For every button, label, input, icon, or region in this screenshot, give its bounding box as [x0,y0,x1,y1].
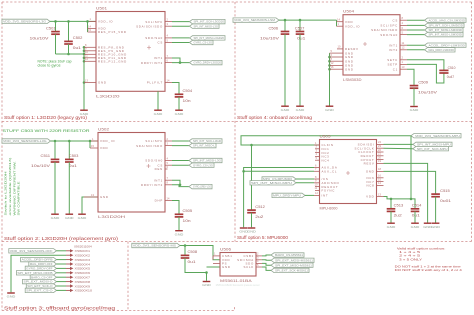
svg-text:0u1: 0u1 [69,164,77,168]
svg-text:U505: U505 [320,134,331,138]
net flag VDD_3V3_SENSORS section5 [411,134,461,138]
svg-text:ACCEL_MAG_CS-LSM303D: ACCEL_MAG_CS-LSM303D [429,18,466,22]
svg-text:09S2011004: 09S2011004 [74,245,92,249]
net flag SPI_EXT_SCK-O [26,284,56,288]
pin stubs U504 right [400,16,407,20]
section divider horizontal y=121.5 [2,121,472,123]
origin cross U505 [346,171,350,175]
svg-text:L3GD20H: L3GD20H [98,215,126,219]
svg-text:Stuff option 3: offboard gyro/: Stuff option 3: offboard gyro/accel/mag [4,305,116,310]
svg-text:C511: C511 [41,154,51,158]
svg-text:SDA/SDI/SDO: SDA/SDI/SDO [136,24,163,28]
origin cross U502 [147,164,151,168]
wire CS to flag [172,42,190,44]
svg-text:10u/10V: 10u/10V [31,164,51,168]
svg-text:0u1: 0u1 [297,36,305,40]
wire 3V3 rail section2 [51,140,98,142]
ground GND C508 [202,282,212,288]
wire XS500 pin 9 [57,285,67,287]
svg-text:GND: GND [202,283,212,287]
wire U504 INT1 to flag [407,44,425,46]
svg-text:GND: GND [100,195,109,199]
wire baro 3V3 rail [180,246,220,260]
capacitor C506 [284,20,286,31]
wire AUX pins to ground [244,168,314,228]
net flag VDD_3V3_SENSORS section4 [233,18,279,22]
svg-text:SPI_EXT_CS-O: SPI_EXT_CS-O [26,289,52,293]
net flag SPI_EXT_CS-O [25,288,56,292]
svg-text:INT1: INT1 [389,43,398,47]
connector XS500 pin 8 [66,280,90,284]
capacitor C511 [54,141,56,159]
svg-text:SDO/SA0: SDO/SA0 [145,36,163,40]
wire SETP to C510 [407,64,444,83]
pin stubs U506 right [256,252,262,256]
svg-text:XS500X8: XS500X8 [75,280,91,284]
wire RES pin bus U501 [83,47,85,109]
net flag ACCEL_DRDY [425,43,467,47]
sheet outer frame left border [1,2,3,311]
svg-text:Stuff option 2: L3GD20H (repla: Stuff option 2: L3GD20H (replacement gyr… [4,236,119,241]
capacitor C515 [431,189,451,203]
svg-text:0u01: 0u01 [440,199,451,203]
svg-text:SCL/SPC: SCL/SPC [145,20,163,24]
svg-text:GND: GND [345,67,354,71]
svg-text:C1: C1 [393,67,398,71]
svg-text:0u1: 0u1 [412,214,420,218]
ground GND C506 [281,106,291,112]
wire RESV to ground [384,163,428,222]
capacitor C514 [411,204,422,218]
svg-text:C505: C505 [183,209,193,213]
svg-text:GND: GND [239,230,249,234]
svg-text:GND: GND [175,112,185,116]
IC U504 LSM303D accel/mag [343,10,400,83]
svg-text:VDD_3V3_SENSORS-OFF: VDD_3V3_SENSORS-OFF [10,249,53,253]
net flag GYRO_CS section2 [189,163,214,167]
net flag GYRO_DRDY section2 [189,184,212,188]
svg-text:PLLFILT: PLLFILT [147,81,163,85]
svg-text:SPI_INT_MISO-L3G: SPI_INT_MISO-L3G [194,24,219,28]
wire U504 SDO to flag [407,34,425,36]
svg-text:ACCEL_DRDY-LSM303D: ACCEL_DRDY-LSM303D [429,43,466,47]
net flag VDD_3V3_SENSORS baro [132,243,180,247]
wire XS500 pin 1 [57,250,67,252]
connector XS500 pin 1 [66,249,90,253]
wire U502 INT1 join [172,180,180,185]
ground GND C512 [247,228,257,234]
svg-text:SPI_INT_MISO-MPU: SPI_INT_MISO-MPU [251,181,292,185]
wire XS500 pin 5 [57,267,67,269]
connector XS500 pin 10 [66,289,92,293]
svg-text:GND: GND [175,232,185,236]
wire MPU SCL to flag [384,147,413,150]
pin stubs U502 right [165,137,172,141]
net flag SDO LSM303D [425,32,464,36]
svg-text:VDD: VDD [100,146,108,150]
wire GND pin to C515 [384,171,436,194]
svg-text:GND: GND [387,225,397,229]
wire U502 SCL to flag [172,140,189,142]
svg-text:SPI_INT_SCK-MPU: SPI_INT_SCK-MPU [417,147,448,151]
svg-text:GND: GND [366,170,375,174]
svg-text:VDD_3V3_SENSORS-L3G: VDD_3V3_SENSORS-L3G [3,20,46,24]
junction dots rail section1 [54,20,57,23]
wire XS500 pin 7 [57,276,67,278]
svg-text:Stuff option 1: L3GD20 (legacy: Stuff option 1: L3GD20 (legacy gyro) [4,115,88,120]
svg-text:DRDY/INT2: DRDY/INT2 [141,183,163,187]
capacitor C513 [390,199,392,209]
ground GND U504 bus [325,106,335,112]
svg-text:GND: GND [247,230,257,234]
svg-text:STUFF C503 WITH 220R RESISTOR: STUFF C503 WITH 220R RESISTOR [3,129,91,133]
svg-text:SPI_INT_MOSI-MPU: SPI_INT_MOSI-MPU [417,143,451,147]
wire MPU INT [305,194,314,196]
wire baro SCLK to flag [262,267,271,270]
svg-text:RES_P12_GND: RES_P12_GND [98,59,127,63]
wire baro SDO to flag [262,263,271,265]
svg-text:Switch to L3GD20H: Switch to L3GD20H [4,172,8,216]
wire SDA to flag [172,25,190,27]
svg-text:AUX_CL: AUX_CL [322,169,338,173]
svg-text:DHP: DHP [155,199,163,203]
wire baro CSB to flag [262,254,271,257]
svg-text:INT: INT [322,194,329,198]
net flag ACCEL_MAG_CS [425,18,467,22]
svg-text:GND: GND [98,81,107,85]
wire DRDY to flag [172,62,190,64]
wire SCL to flag [172,21,190,23]
svg-text:10u/10V: 10u/10V [260,36,280,40]
wire cap ground rail section1 [56,53,85,55]
svg-text:SCLK: SCLK [243,265,254,269]
svg-text:GND: GND [325,108,335,112]
ground GND C504 [175,110,185,116]
svg-text:MS5611-01BA03 barometric press: MS5611-01BA03 barometric pressure sensor [216,283,260,287]
connector XS500 pin 3 [66,258,90,262]
ground GND C513 [387,223,397,229]
capacitor C503 [68,141,70,159]
net flag SPI_INT_SCK section2 [189,139,222,143]
net flag SPI_EXT_MISO-OFFB [16,271,56,275]
svg-text:VDD_3V3_SENSORS-L3G: VDD_3V3_SENSORS-L3G [3,139,47,143]
svg-text:SDO/SA0: SDO/SA0 [145,159,163,163]
svg-text:C501: C501 [46,26,56,30]
net flag GYRO_CS section1 [190,40,214,44]
net flag SPI_INT_SCK MPU [413,147,449,151]
svg-text:SW COMPATIBLE: SW COMPATIBLE [17,182,21,216]
ground GND C507 [296,106,306,112]
svg-text:GND: GND [281,108,291,112]
svg-text:U502: U502 [98,127,109,131]
wire 3V3 vertical to VDD rail [410,136,412,199]
svg-text:MPU_DRDY-MPU: MPU_DRDY-MPU [273,194,301,198]
net flag SDA LSM303D [425,28,464,32]
svg-text:ACCEL_DRDY-OFFB: ACCEL_DRDY-OFFB [22,258,53,262]
svg-text:once available (Q3/2013): once available (Q3/2013) [8,158,12,216]
wire U501 bottom ground [157,91,159,109]
svg-text:XS500X9: XS500X9 [75,284,91,288]
wire U504 INT2 to flag [407,49,425,51]
connector XS500 pin 7 [66,276,90,280]
net flag SPI_INT_SCK section1 [190,19,226,23]
svg-text:XS500X7: XS500X7 [75,276,91,280]
capacitor C507 [299,20,301,31]
capacitor C512 [251,145,253,210]
wire baro SDI to flag [262,259,271,262]
svg-text:SPI_EXT_MOSI-MS5611: SPI_EXT_MOSI-MS5611 [275,258,314,262]
svg-text:CS: CS [157,41,163,45]
svg-text:SCL/SPC: SCL/SPC [380,24,398,28]
svg-text:GND: GND [411,225,421,229]
svg-text:NC4: NC4 [322,158,330,162]
svg-text:VDD_3V3_SENSORS-MPU: VDD_3V3_SENSORS-MPU [415,134,460,138]
wire MPU AD0 [296,182,314,184]
svg-text:SETC: SETC [387,58,398,62]
svg-text:CS: CS [392,18,398,22]
ground GND RESV [423,223,433,229]
wire U502 DHP to C505 [172,201,179,215]
IC U505 MPU-6000 gyro/accel [320,134,377,210]
svg-text:MAG_DRDY-LSM303D: MAG_DRDY-LSM303D [429,48,455,52]
svg-text:DRDY/INT2: DRDY/INT2 [141,61,163,65]
capacitor C502 [68,21,70,41]
svg-text:U506: U506 [220,247,231,251]
section 3 right border [127,242,129,311]
wire U502 DRDY to flag [172,185,189,187]
svg-text:BARO_CS-MS5611: BARO_CS-MS5611 [275,253,304,257]
section 2 and 5 bottom border [2,241,472,243]
wire MPU CS [296,178,314,180]
svg-text:SPI_INT_MOSI-L3G: SPI_INT_MOSI-L3G [193,159,221,163]
svg-text:SDA/SDI/SDO: SDA/SDI/SDO [371,28,398,32]
svg-text:C509: C509 [418,80,428,84]
pin stub U506 VDD [213,252,220,256]
svg-text:INT1: INT1 [154,178,163,182]
ground GND C509 [410,107,420,113]
svg-text:2u2: 2u2 [255,215,263,219]
svg-text:0u1: 0u1 [73,46,81,50]
net flag MAG_DRDY-OFF [29,262,57,266]
svg-text:GND: GND [7,295,17,299]
svg-text:SDA/SDI/SDO: SDA/SDI/SDO [136,144,163,148]
wire XS500 pin 10 [57,289,67,291]
net flag SPI_EXT_MOSI-O [23,279,57,283]
wire U506 GND pin [207,266,221,268]
svg-text:GND: GND [80,112,90,116]
svg-text:SPI_INT_MOSI-L3GD20: SPI_INT_MOSI-L3GD20 [194,36,225,40]
svg-text:XS500X1: XS500X1 [75,249,91,253]
svg-text:0u47: 0u47 [447,75,455,79]
svg-text:GND: GND [51,216,61,220]
svg-text:GYRO_CS-L3G: GYRO_CS-L3G [193,163,213,167]
svg-text:XS500X6: XS500X6 [75,271,91,275]
svg-text:C504: C504 [183,89,193,93]
wire XS500 pin 4 [57,263,67,265]
svg-text:XS500X5: XS500X5 [75,267,91,271]
wire U504 SDA to flag [407,29,425,31]
svg-text:SPI_EXT_SCK-O: SPI_EXT_SCK-O [27,284,52,288]
ground GND XS500 [7,293,17,299]
capacitor C504 [175,89,193,103]
svg-text:SPI_INT_MOSI-LSM303D: SPI_INT_MOSI-LSM303D [429,28,463,32]
svg-text:INT1: INT1 [154,56,163,60]
svg-text:SPI_EXT_MOSI-O: SPI_EXT_MOSI-O [24,280,53,284]
svg-text:XS500X4: XS500X4 [75,262,91,266]
svg-text:C506: C506 [269,26,279,30]
svg-text:GND: GND [222,265,231,269]
svg-text:DO NOT stuff 3 with any of 1,: DO NOT stuff 3 with any of 1, 2 or 4 [395,268,462,272]
net flag SPI_EXT_MISO baro [271,263,313,267]
wire SETC to C510 [407,60,444,71]
ground GND AUX [239,228,249,234]
svg-text:close to gyros: close to gyros [38,64,61,68]
origin cross U504 [363,42,367,46]
svg-text:VDD_IO: VDD_IO [345,24,360,28]
pin stubs U505 left [314,141,320,145]
wire XS500 pin 2 to ground [11,255,66,292]
svg-text:L3GD20: L3GD20 [96,95,120,99]
svg-text:DEN: DEN [155,167,163,171]
svg-text:RESV: RESV [364,162,375,166]
ground GND C511 [51,214,61,220]
svg-text:FSYNC: FSYNC [322,189,336,193]
net flag SPI_EXT_SCK baro [271,268,309,272]
section divider vertical center [234,2,236,242]
svg-text:C502: C502 [73,36,83,40]
wire VDD rail bottom [384,197,416,209]
connector XS500 pin 5 [66,267,90,271]
svg-text:WARNING DIFFERENT HW,: WARNING DIFFERENT HW, [12,161,16,215]
net flag BARO_CS [271,253,304,257]
svg-text:U501: U501 [96,6,107,10]
svg-text:GYRO_DRDY-OFF: GYRO_DRDY-OFF [26,267,53,271]
net flag SPI_EXT_MOSI baro [271,258,314,262]
ground GND U502 [78,214,88,220]
net flag MPU INT [272,193,305,197]
svg-text:C508: C508 [188,250,198,254]
ground GND C515 [431,223,441,229]
ground GND C505 [175,231,185,237]
svg-text:10u/10V: 10u/10V [418,90,438,94]
svg-text:Stuff option 4: onboard accel/: Stuff option 4: onboard accel/mag [237,115,313,120]
svg-text:GND: GND [431,225,441,229]
svg-text:SPI_INT_MISO-LSM303D: SPI_INT_MISO-LSM303D [429,33,463,37]
svg-text:2u2: 2u2 [394,214,402,218]
net flag VDD_3V3_SENSORS section2 [2,139,51,143]
svg-text:INT2: INT2 [389,48,398,52]
ground GND C514 [411,223,421,229]
wire U504 SCL to flag [407,24,425,26]
pin stubs U504 left [337,18,344,22]
capacitor C510 [439,66,455,79]
svg-text:GND: GND [410,108,420,112]
capacitor C505 [175,209,193,223]
svg-text:C507: C507 [295,26,305,30]
svg-text:3 + 5 ONLY: 3 + 5 ONLY [399,257,422,261]
wire VDD bus U504 [336,20,338,26]
svg-text:LSM303D: LSM303D [343,78,362,82]
svg-text:0u1: 0u1 [188,260,196,264]
IC U502 L3GD20H gyroscope [98,127,165,219]
svg-text:C503: C503 [69,154,79,158]
svg-text:SPI_INT_MISO-L: SPI_INT_MISO-L [193,144,216,148]
svg-text:BARO_CS-OFF: BARO_CS-OFF [31,275,53,279]
wire GND bus U504 [329,53,331,105]
svg-text:VDD_3V3_SENSORS-LSM: VDD_3V3_SENSORS-LSM [234,18,276,22]
pin stubs U501 left [89,17,96,21]
connector XS500 pin 2 [66,254,90,258]
sheet outer frame top border [2,1,472,3]
svg-text:Stuff option 5: MPU6000: Stuff option 5: MPU6000 [237,235,289,240]
svg-text:VDD: VDD [366,195,374,199]
net flag SPI_INT_MISO section2 [189,143,216,147]
wire U504 CS to flag [407,19,425,21]
net flag SPI_INT_MOSI section1 [190,36,226,40]
ground GND U501 bus [80,110,90,116]
net flag SPI_INT_MOSI MPU [413,142,452,146]
wire 3V3 rail section5 top [241,136,411,145]
wire 3V3 rail section4 [279,19,337,21]
svg-text:MAG_DRDY-OFF: MAG_DRDY-OFF [30,262,53,266]
pin stubs U501 right [165,17,172,21]
svg-text:SCL/SPC: SCL/SPC [145,139,163,143]
net flag VDD_3V3_SENSORS section1 [2,19,50,23]
svg-text:SDO/SA0: SDO/SA0 [380,33,398,37]
svg-text:SETP: SETP [387,63,398,67]
net flag MAG_DRDY [425,48,456,52]
capacitor C509 [410,80,438,94]
wire XS500 pin 8 [57,281,67,283]
ground GND U501 bottom [154,110,164,116]
svg-text:C510: C510 [448,66,456,70]
wire PLLFILT to C504 [172,83,179,95]
svg-text:XS500X10: XS500X10 [75,289,93,293]
wire U502 SDO to flag [172,160,189,162]
bottom-left sections bottom border [2,306,235,311]
pin stubs U505 right [377,140,384,144]
svg-text:GYRO_DRDY-L3G: GYRO_DRDY-L3G [193,185,211,189]
net flag GYRO_DRDY section1 [190,60,223,64]
net flag VDD_3V3_SENSORS-OFF [9,249,57,253]
svg-text:VDD_IO: VDD_IO [98,20,113,24]
svg-text:VDD_3V3_SENSORS-MS: VDD_3V3_SENSORS-MS [133,244,176,248]
net flag BARO_CS-OFF [30,275,56,279]
capacitor C508 [184,246,186,256]
ground GND C503 [65,214,75,220]
net flag MPU CS [262,177,296,181]
net flag GYRO_DRDY-OFF [25,266,56,270]
svg-text:GND: GND [65,216,75,220]
net flag SPI_INT_MOSI section2 [189,158,222,162]
wire XS500 pin 3 [57,259,67,261]
svg-text:SPI_INT_SCK-L3GD: SPI_INT_SCK-L3GD [193,139,221,143]
svg-text:XS500X2: XS500X2 [75,254,91,258]
net flag SPI_INT_MISO section1 [190,24,220,28]
wire C1 to C509 [407,69,414,85]
capacitor C501 [55,21,57,31]
svg-text:C514: C514 [412,204,422,208]
svg-text:GND: GND [154,112,164,116]
svg-text:C513: C513 [394,204,404,208]
connector XS500 pin 9 [66,284,90,288]
svg-text:U504: U504 [343,10,354,14]
svg-text:GYRO_CS-L3G: GYRO_CS-L3G [194,41,213,45]
pin stubs U502 left [91,137,98,141]
wire INT1 join DRDY [172,58,180,63]
svg-text:SPI_EXT_SCK-MS5611: SPI_EXT_SCK-MS5611 [275,269,309,273]
wire 3V3 rail section1 [50,20,96,22]
